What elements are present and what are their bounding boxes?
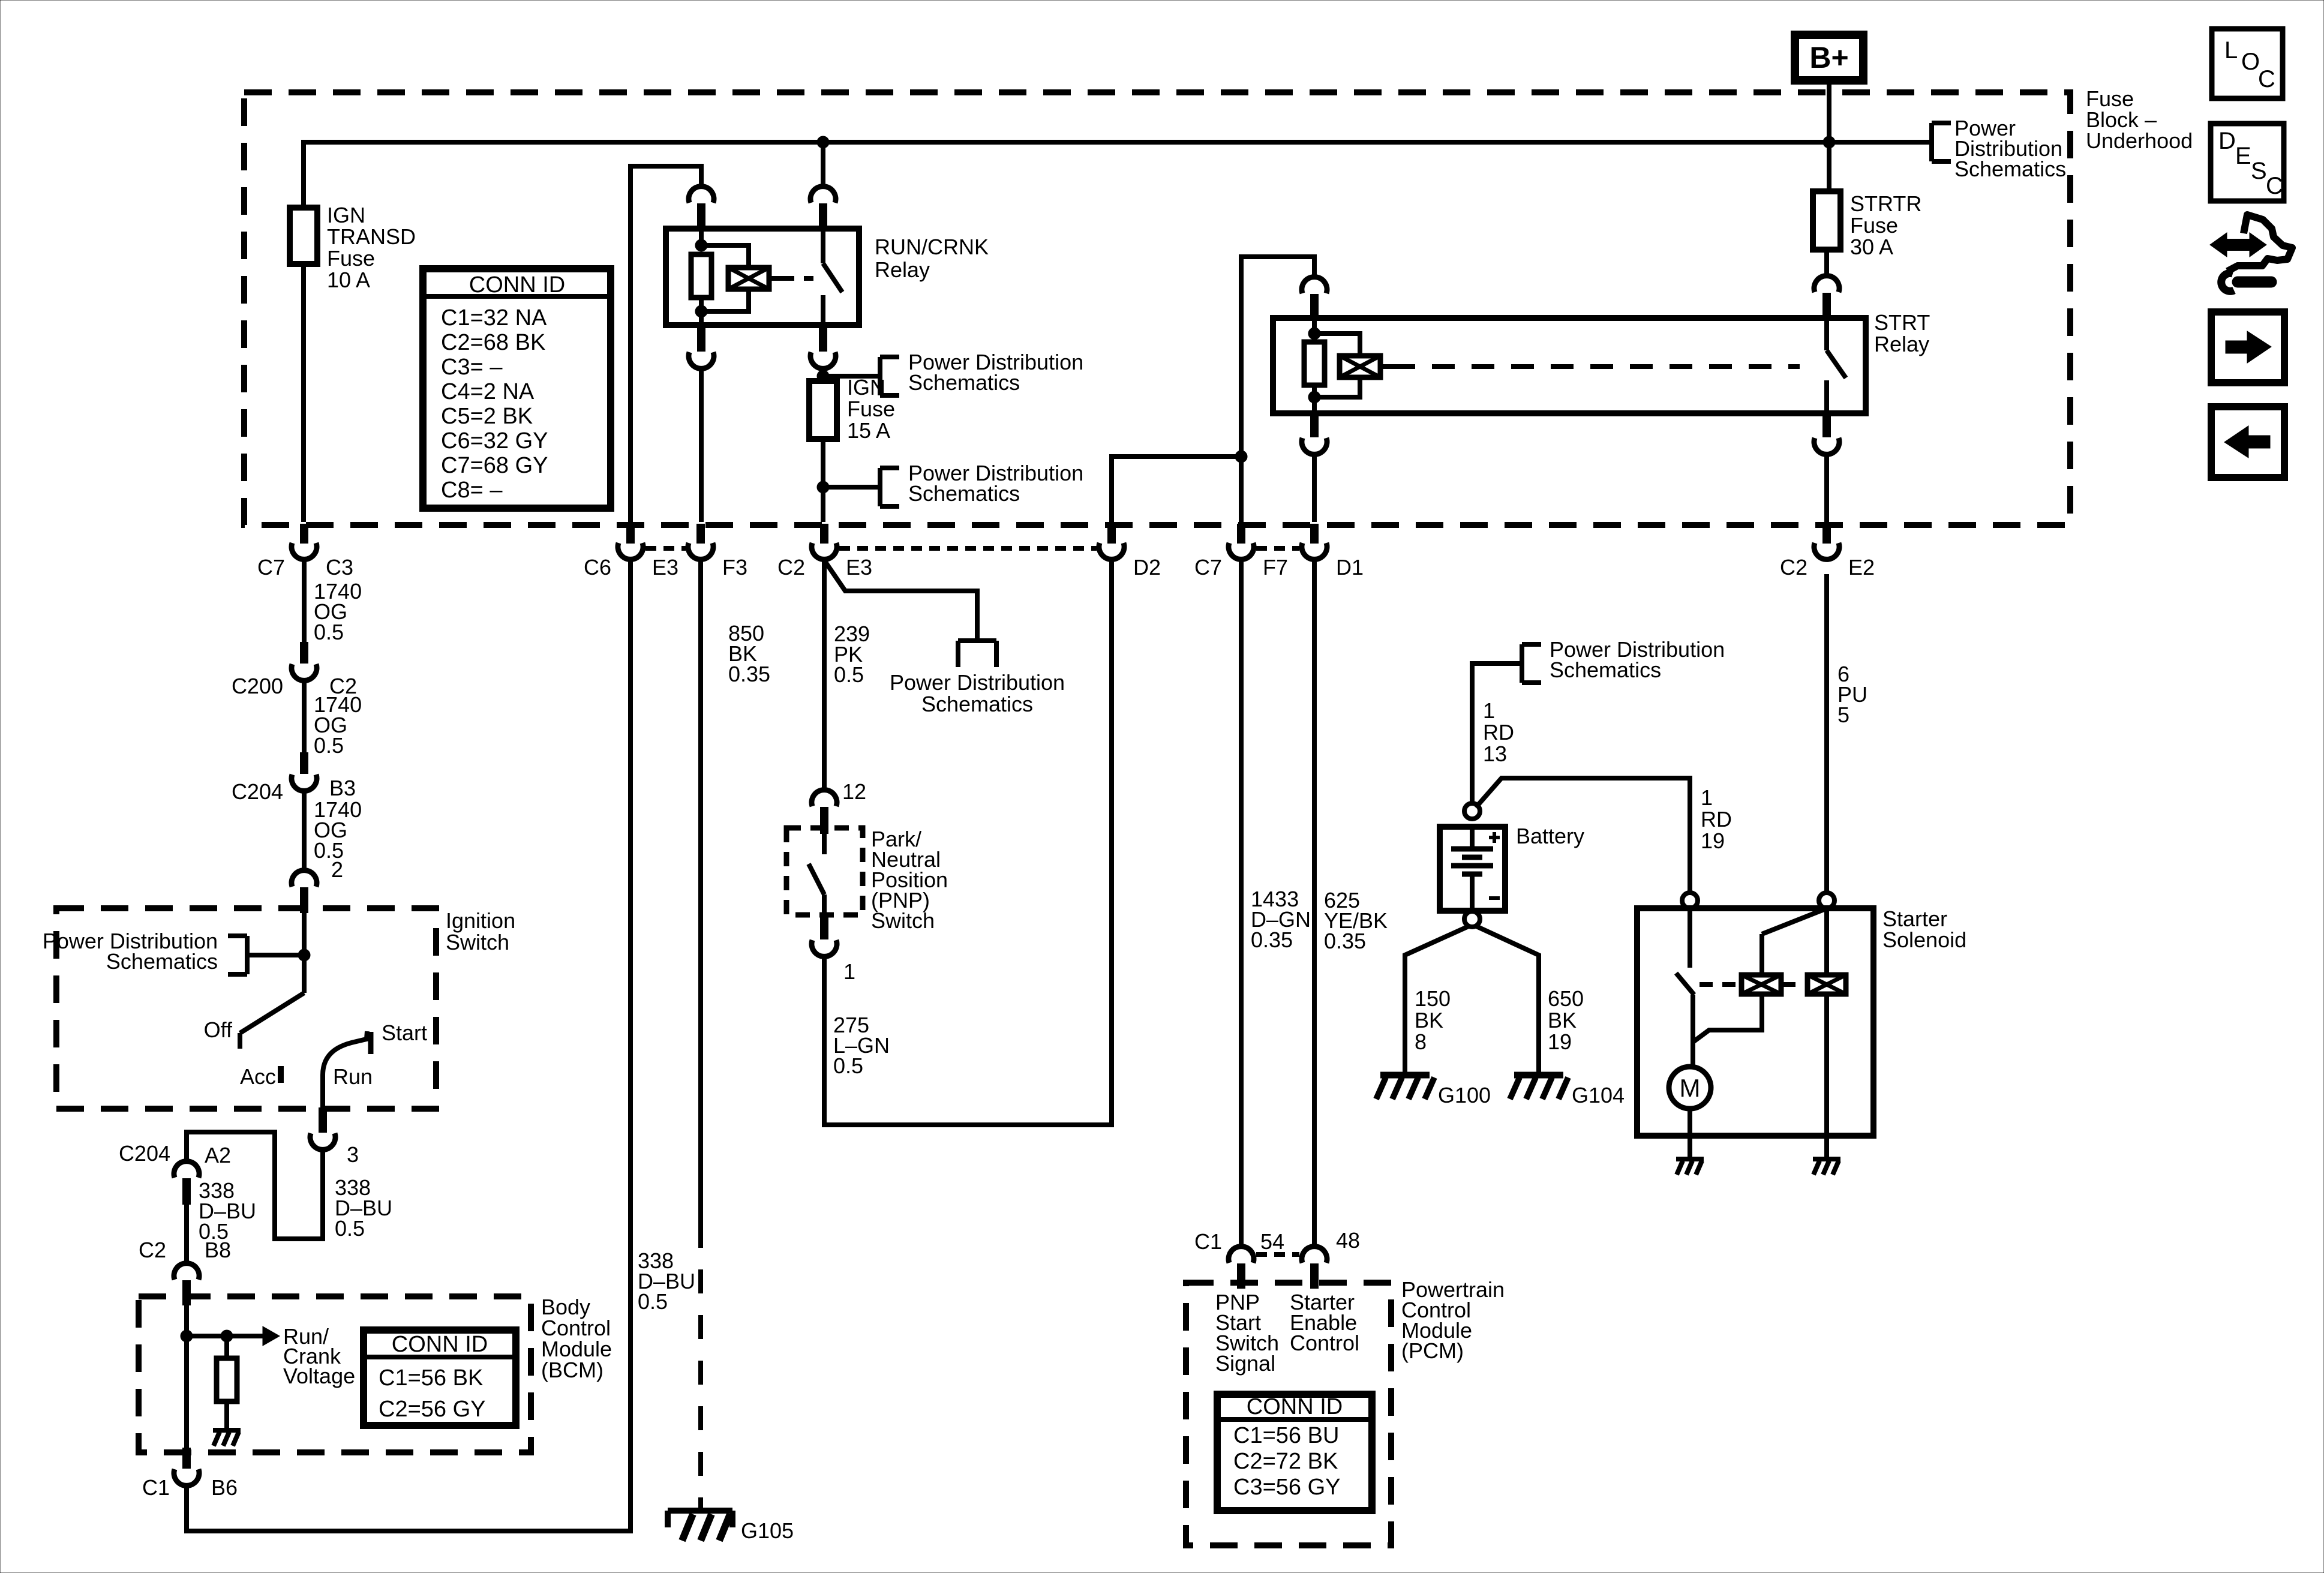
svg-text:Underhood: Underhood (2086, 128, 2193, 153)
wire 850 BK dashed continuation (698, 1224, 703, 1509)
wire pair dash C6-F3 (645, 546, 686, 551)
svg-text:Schematics: Schematics (908, 481, 1020, 506)
svg-text:Start: Start (382, 1020, 427, 1045)
svg-text:Fuse: Fuse (1850, 213, 1898, 238)
svg-text:D1: D1 (1336, 555, 1364, 580)
svg-text:C200: C200 (232, 674, 283, 698)
off-page reference Power Distribution Schematics (below IGN fuse) (880, 461, 1083, 506)
svg-text:RD: RD (1701, 807, 1732, 831)
svg-text:54: 54 (1260, 1229, 1284, 1254)
svg-text:C2: C2 (777, 555, 805, 580)
icon back arrow box (2211, 407, 2284, 478)
connector PNP switch pin 1 (812, 914, 855, 984)
svg-text:(BCM): (BCM) (541, 1358, 603, 1382)
svg-text:650: 650 (1548, 986, 1584, 1011)
wire 625 YE/BK from D1 to PCM 48 (1314, 560, 1388, 1246)
battery negative terminal (1464, 911, 1480, 927)
svg-text:C2=68 BK: C2=68 BK (441, 330, 545, 355)
wire RUN/CRNK coil to F3 (699, 368, 704, 522)
wire STRTR fuse to STRT relay (1824, 250, 1829, 275)
svg-text:Schematics: Schematics (908, 370, 1020, 395)
svg-text:0.5: 0.5 (314, 620, 344, 644)
svg-text:C204: C204 (232, 779, 283, 804)
svg-text:BK: BK (1548, 1008, 1577, 1032)
icon LOC box (2212, 29, 2283, 98)
svg-text:C3: C3 (326, 555, 353, 580)
ground G104 (1510, 1075, 1625, 1107)
svg-text:Fuse: Fuse (327, 246, 375, 271)
ignition switch internals (204, 913, 427, 1109)
svg-text:Schematics: Schematics (1954, 157, 2066, 181)
svg-text:Voltage: Voltage (283, 1364, 355, 1388)
battery (1440, 824, 1584, 911)
connector D1 fuse block starter enable (1302, 524, 1364, 580)
wire STRT switch to C2/E2 (1824, 454, 1829, 522)
node IGN fuse feed tap (817, 370, 880, 382)
svg-text:Schematics: Schematics (106, 949, 218, 974)
svg-text:1: 1 (843, 959, 855, 984)
wire STRT coil to D1 (1312, 454, 1317, 522)
svg-text:Schematics: Schematics (921, 692, 1033, 716)
PNP switch internals (809, 834, 824, 916)
connector F3 fuse block ground lead (688, 524, 747, 580)
svg-text:E3: E3 (652, 555, 678, 580)
connector PCM pin 48 (1302, 1228, 1360, 1289)
ignition switch dashed enclosure (56, 908, 515, 1109)
svg-text:0.5: 0.5 (833, 1053, 863, 1078)
connector ignition switch pin 2 (292, 870, 317, 913)
body control module dashed enclosure (139, 1295, 612, 1452)
starter solenoid S terminal (1819, 893, 1834, 908)
node bus junction RUN/CRNK (817, 136, 829, 148)
wire IGN TRANSD to connector C7 (301, 264, 306, 522)
off-page reference Power Distribution Schematics (above IGN fuse) (880, 350, 1083, 395)
connector C2/E2 fuse block starter feed (1780, 524, 1875, 580)
connector RUN/CRNK relay coil top terminal (689, 187, 714, 231)
svg-text:C2: C2 (139, 1238, 166, 1262)
svg-text:Signal: Signal (1215, 1351, 1275, 1376)
svg-text:Switch: Switch (446, 930, 509, 954)
svg-text:C2=72 BK: C2=72 BK (1233, 1449, 1338, 1474)
svg-text:G105: G105 (741, 1518, 794, 1543)
svg-text:RUN/CRNK: RUN/CRNK (875, 235, 989, 259)
svg-text:S: S (2251, 158, 2267, 184)
svg-text:CONN ID: CONN ID (1247, 1394, 1343, 1419)
wire 1 RD 13 to battery (1472, 664, 1522, 804)
wire solenoid coil ground lead (1824, 1136, 1829, 1158)
wire main battery bus (301, 140, 1932, 145)
svg-text:E: E (2235, 143, 2251, 169)
table CONN ID BCM (364, 1330, 516, 1425)
wire 338 D-BU from ignition switch Start (187, 1132, 392, 1241)
starter solenoid (1637, 906, 1966, 1136)
connector C1/B6 BCM output (142, 1448, 238, 1500)
connector C7/F7 fuse block PNP signal (1194, 524, 1288, 580)
connector C204/B3 inline (232, 752, 356, 804)
wire solenoid motor ground lead (1688, 1136, 1692, 1158)
resistor BCM pull-down (217, 1336, 237, 1429)
relay STRT (1273, 310, 1930, 413)
svg-text:0.5: 0.5 (335, 1216, 365, 1241)
svg-text:CONN ID: CONN ID (469, 272, 565, 298)
icon DESC box (2211, 124, 2284, 201)
off-page reference Power Distribution Schematics (battery feed) (1522, 637, 1725, 683)
svg-text:Schematics: Schematics (1550, 658, 1661, 682)
park/neutral position switch dashed enclosure (786, 827, 948, 933)
svg-text:12: 12 (842, 779, 866, 804)
svg-text:Fuse: Fuse (847, 397, 895, 421)
svg-text:C1=32 NA: C1=32 NA (441, 305, 547, 331)
relay RUN/CRNK (666, 229, 989, 325)
fuse STRTR 30 A (1813, 191, 1921, 259)
wire pair dash C7/F7-D1 (1256, 546, 1299, 551)
svg-text:C6: C6 (584, 555, 611, 580)
connector ignition switch pin 3 (310, 1107, 359, 1167)
svg-text:B+: B+ (1809, 41, 1848, 74)
svg-text:E3: E3 (846, 555, 872, 580)
node D2 / C7-F7 junction (1235, 451, 1247, 463)
svg-text:Power Distribution: Power Distribution (890, 670, 1065, 695)
svg-text:D: D (2218, 128, 2236, 154)
wire 6 PU from E2 to starter solenoid (1827, 574, 1867, 893)
wire 150 BK to G100 (1405, 926, 1469, 1074)
svg-text:C1: C1 (1194, 1229, 1222, 1254)
wire pair dash C2/E3-D2 (839, 546, 1097, 551)
powertrain control module dashed enclosure (1186, 1277, 1505, 1545)
wire 1740 OG segment 1 (304, 560, 362, 644)
svg-text:0.5: 0.5 (834, 662, 864, 687)
connector C2/B8 inline (139, 1238, 231, 1305)
wire D2 link inside fuse block (1112, 457, 1241, 522)
wire IGN TRANSD feed (301, 142, 306, 208)
connector STRT relay switch top terminal (1814, 276, 1839, 319)
svg-text:CONN ID: CONN ID (392, 1332, 488, 1357)
table CONN ID fuse block underhood (423, 269, 611, 508)
svg-text:B3: B3 (329, 776, 356, 800)
svg-text:15 A: 15 A (847, 418, 890, 443)
starter solenoid battery terminal (1682, 893, 1698, 908)
connector RUN/CRNK relay switch bottom terminal (810, 325, 836, 368)
svg-text:Switch: Switch (871, 908, 935, 933)
svg-text:C3=56 GY: C3=56 GY (1233, 1475, 1341, 1500)
svg-text:D2: D2 (1133, 555, 1161, 580)
svg-text:C1=56 BU: C1=56 BU (1233, 1423, 1339, 1448)
svg-text:Off: Off (204, 1017, 233, 1042)
svg-text:Ignition: Ignition (446, 908, 515, 933)
wire 239 PK tap to power distribution (824, 560, 977, 641)
node bus junction B+ (1823, 136, 1835, 148)
svg-text:10 A: 10 A (327, 268, 370, 292)
node IGN fuse output tap (817, 481, 880, 493)
svg-text:C3= –: C3= – (441, 355, 503, 380)
svg-text:B6: B6 (211, 1475, 238, 1500)
svg-text:19: 19 (1701, 828, 1725, 853)
svg-text:G104: G104 (1572, 1083, 1625, 1107)
connector STRT relay switch bottom terminal (1814, 413, 1839, 454)
svg-text:C204: C204 (119, 1141, 170, 1166)
icon vehicle with double arrow and wrench (2210, 215, 2292, 291)
ground BCM internal (213, 1430, 241, 1446)
svg-text:48: 48 (1336, 1228, 1360, 1253)
svg-text:1: 1 (1483, 698, 1495, 723)
B+ battery positive terminal (1795, 35, 1863, 80)
svg-text:BK: BK (1415, 1008, 1443, 1032)
svg-text:C: C (2258, 66, 2275, 92)
wire B+ feed (1827, 80, 1831, 191)
connector C2/E3 fuse block IGN output (777, 524, 872, 580)
connector C7/C3 fuse block to ignition switch (257, 524, 353, 580)
svg-text:Run: Run (333, 1064, 373, 1089)
ground G105 (668, 1511, 794, 1543)
connector PNP switch pin 12 (812, 790, 837, 834)
svg-text:C: C (2266, 173, 2283, 199)
wire 650 BK to G104 (1476, 926, 1584, 1074)
icon forward arrow box (2211, 312, 2284, 383)
wire 850 BK from F3 (701, 560, 770, 1224)
wire 338 D-BU BCM return to C6 (187, 560, 695, 1531)
svg-text:STRT: STRT (1874, 310, 1930, 335)
svg-text:STRTR: STRTR (1850, 191, 1921, 216)
fuse block - underhood dashed enclosure (244, 86, 2193, 525)
svg-text:Acc: Acc (240, 1064, 276, 1089)
svg-text:Solenoid: Solenoid (1882, 927, 1966, 952)
svg-text:RD: RD (1483, 720, 1514, 745)
wire BCM through feed (184, 1336, 189, 1448)
svg-text:Battery: Battery (1516, 824, 1584, 848)
svg-text:L: L (2224, 37, 2238, 64)
svg-text:C7: C7 (1194, 555, 1222, 580)
off-page reference Power Distribution Schematics (top right) (1932, 116, 2066, 181)
motor starter M (1669, 1067, 1711, 1136)
svg-text:0.35: 0.35 (1251, 927, 1293, 952)
svg-text:F3: F3 (722, 555, 747, 580)
wire C6 riser to RUN/CRNK coil (630, 166, 701, 522)
svg-text:C4=2 NA: C4=2 NA (441, 379, 535, 404)
ground starter solenoid (1813, 1159, 1840, 1175)
wire pair dash PCM 54-48 (1256, 1252, 1299, 1257)
svg-text:3: 3 (347, 1142, 359, 1167)
fuse IGN TRANSD 10 A (290, 203, 416, 292)
wire C7/F7 riser to STRT coil (1241, 257, 1314, 522)
svg-text:F7: F7 (1263, 555, 1288, 580)
svg-text:2: 2 (331, 857, 343, 882)
svg-text:0.35: 0.35 (728, 662, 770, 686)
svg-text:0.5: 0.5 (314, 733, 344, 758)
svg-text:E2: E2 (1848, 555, 1875, 580)
svg-text:1: 1 (1701, 785, 1713, 810)
svg-text:C1: C1 (142, 1475, 170, 1500)
svg-text:0.5: 0.5 (638, 1289, 668, 1314)
wire 239 PK to PNP switch (824, 560, 870, 804)
wire 1740 OG segment 2 (304, 681, 362, 758)
BCM internals run/crank voltage sense (181, 1305, 355, 1388)
connector RUN/CRNK relay coil bottom terminal (689, 325, 714, 368)
svg-text:5: 5 (1837, 703, 1849, 727)
svg-text:C2=56 GY: C2=56 GY (379, 1397, 486, 1422)
wire IGN fuse to C2 (821, 439, 825, 522)
wire RUN/CRNK switch output (821, 368, 825, 381)
connector C204/A2 inline (119, 1141, 231, 1205)
svg-text:150: 150 (1415, 986, 1451, 1011)
svg-text:8: 8 (1415, 1029, 1427, 1054)
svg-text:0.35: 0.35 (1324, 929, 1366, 953)
svg-text:C5=2 BK: C5=2 BK (441, 404, 533, 429)
wire bus to RUN/CRNK switch (821, 142, 825, 187)
svg-text:TRANSD: TRANSD (327, 224, 416, 249)
svg-text:B8: B8 (205, 1238, 231, 1262)
svg-text:M: M (1680, 1074, 1701, 1102)
wire 275 L-GN PNP to D2 (824, 560, 1112, 1125)
connector RUN/CRNK relay switch top terminal (810, 187, 836, 231)
connector PCM pin 54 (1194, 1229, 1284, 1289)
svg-text:A2: A2 (205, 1143, 231, 1167)
connector STRT relay coil bottom terminal (1302, 413, 1327, 454)
svg-text:IGN: IGN (327, 203, 365, 227)
wire 1 RD 19 battery to starter solenoid (1476, 778, 1732, 893)
connector STRT relay coil top terminal (1302, 277, 1327, 319)
table CONN ID PCM (1217, 1394, 1372, 1511)
svg-text:C8= –: C8= – (441, 478, 503, 503)
svg-text:(PCM): (PCM) (1401, 1338, 1464, 1363)
wire 338 D-BU to BCM (187, 1178, 256, 1262)
svg-text:IGN: IGN (847, 375, 885, 400)
svg-text:Relay: Relay (1874, 332, 1929, 356)
svg-text:19: 19 (1548, 1029, 1572, 1054)
svg-text:G100: G100 (1438, 1083, 1491, 1107)
svg-text:Control: Control (1290, 1331, 1359, 1355)
ground starter motor (1676, 1159, 1704, 1175)
connector D2 fuse block PNP return (1099, 524, 1161, 580)
svg-text:C2: C2 (1780, 555, 1807, 580)
wire 1740 OG segment 3 to ignition switch pin 2 (304, 791, 362, 882)
battery positive terminal (1464, 803, 1480, 819)
PCM pin function labels (1215, 1290, 1359, 1376)
connector C200/C2 inline (232, 642, 357, 698)
svg-text:30 A: 30 A (1850, 235, 1893, 259)
connector C6/E3 fuse block to BCM wire (584, 524, 678, 580)
wire 1433 D-GN from C7/F7 to PCM 54 (1241, 560, 1311, 1246)
svg-text:C6=32 GY: C6=32 GY (441, 428, 548, 454)
off-page reference Power Distribution Schematics (ignition switch) (43, 929, 247, 974)
svg-text:C7=68 GY: C7=68 GY (441, 453, 548, 478)
svg-text:C7: C7 (257, 555, 285, 580)
svg-text:O: O (2241, 49, 2260, 75)
svg-text:C1=56 BK: C1=56 BK (379, 1365, 483, 1391)
fuse IGN 15 A (809, 375, 895, 443)
off-page reference Power Distribution Schematics (PNP feed) (890, 641, 1065, 716)
ground G100 (1376, 1075, 1491, 1107)
svg-text:13: 13 (1483, 742, 1507, 766)
svg-text:Relay: Relay (875, 257, 930, 282)
